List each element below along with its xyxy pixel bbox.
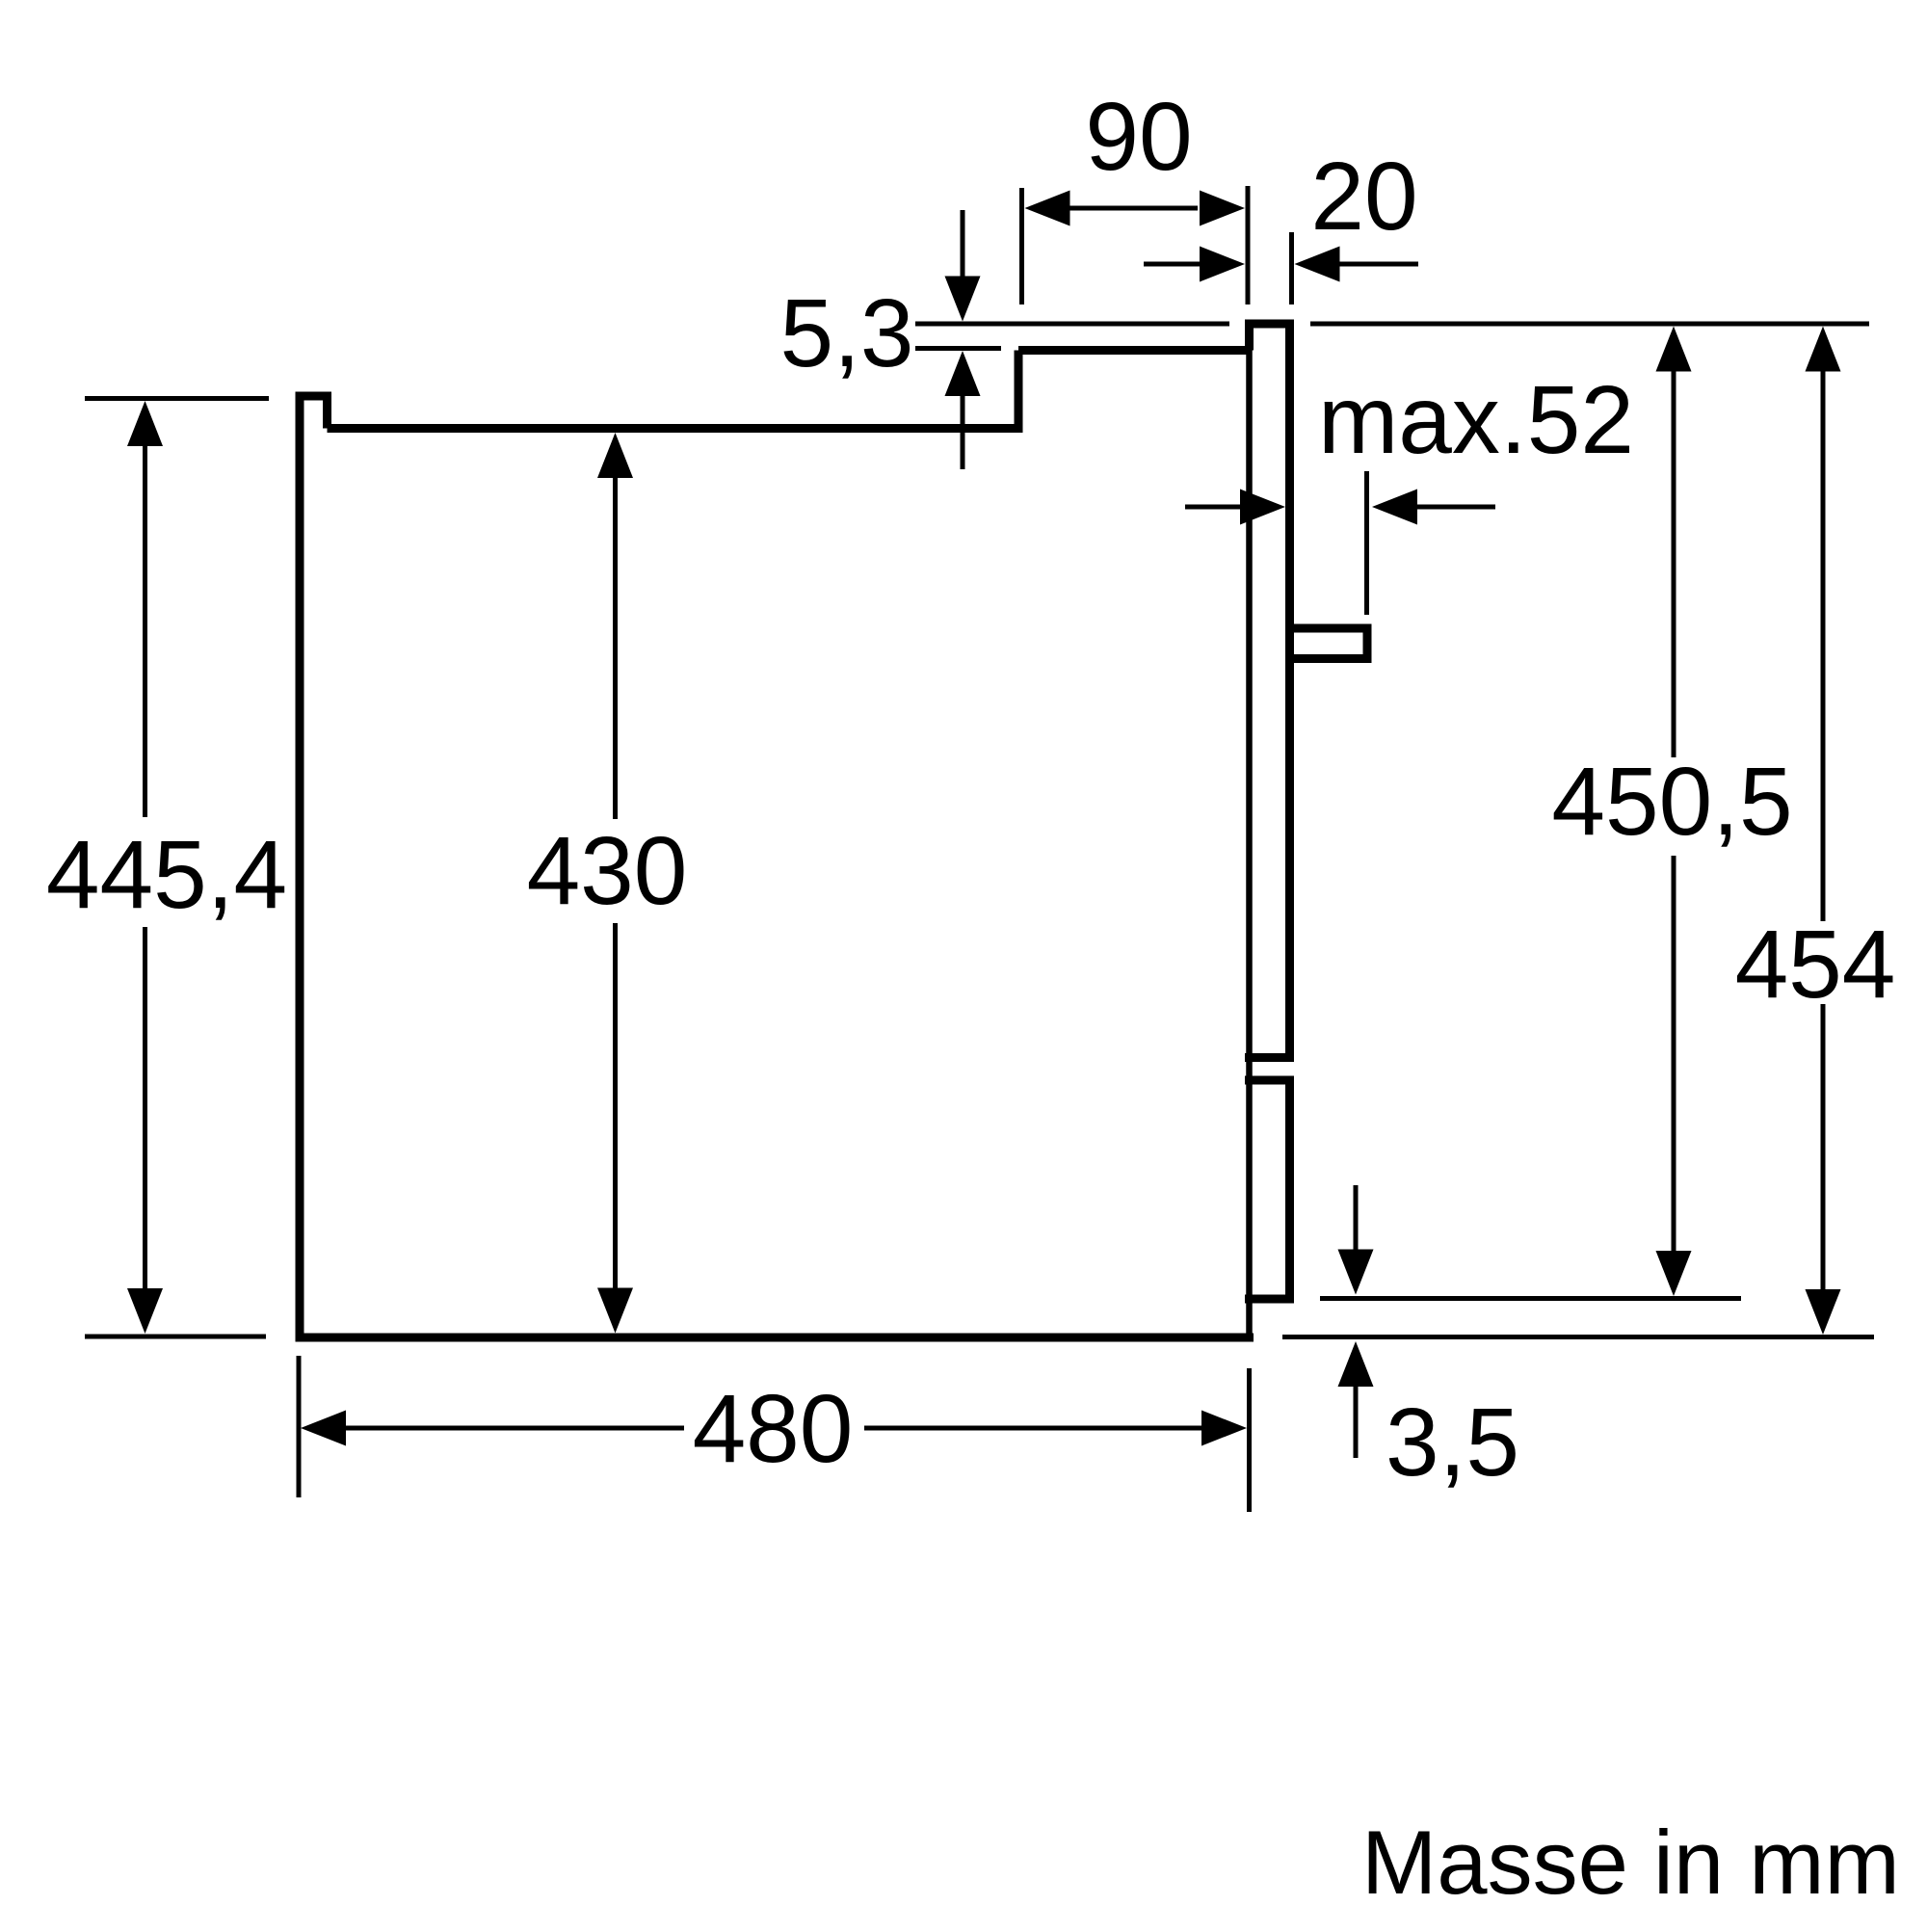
mounting bracket [1285,628,1367,659]
dimension 3,5 arrow down head [1338,1250,1374,1295]
dimension 454 arrow down [1806,1289,1841,1335]
svg-text:445,4: 445,4 [46,821,287,929]
extension line 20 right [1289,232,1294,304]
extension line max.52 [1364,471,1369,615]
front panel left wall upper [1245,320,1254,351]
dimension 430 line upper [613,476,618,819]
dimension 5,3 arrow up head [945,351,981,396]
dimension 480 line left [345,1426,684,1431]
cabinet top step riser [1015,351,1023,434]
dimension 5,3 arrow down tail [961,210,965,278]
dimension 480 arrow right [1201,1411,1247,1446]
svg-text:Masse in mm: Masse in mm [1361,1812,1900,1913]
svg-text:5,3: 5,3 [779,279,913,387]
dimension 20 arrow right-pointing head [1200,247,1245,282]
reference line cabinet bottom right [1282,1335,1874,1339]
dimension 480 arrow left [301,1411,346,1446]
dimension 5,3 arrow up tail [961,394,965,469]
dimension 20 arrow left-pointing head [1295,247,1340,282]
front panel upper bottom cap [1245,1053,1294,1062]
extension line top left [85,396,269,401]
dimension 20 arrow right-pointing tail [1144,262,1201,267]
dimension 445,4 line upper [143,443,147,817]
dimension 480 line right [864,1426,1203,1431]
dimension 445,4 arrow up [127,401,163,446]
dimension 445,4 line lower [143,927,147,1291]
reference line 5,3 lower [915,346,1001,351]
dimension 430 arrow down [597,1288,633,1334]
extension line 90 right [1246,186,1251,304]
reference line 5,3 upper [915,322,1229,327]
svg-text:450,5: 450,5 [1551,748,1792,856]
front panel upper right wall [1285,320,1294,1063]
svg-text:20: 20 [1310,143,1417,251]
front panel lower top cap [1245,1076,1294,1085]
dimension 450,5 line lower [1672,856,1676,1253]
extension line bottom left [85,1335,266,1339]
front panel left wall [1246,351,1253,1342]
cabinet bottom edge [296,1334,1254,1342]
extension line 480 left [297,1356,302,1497]
extension line 90 left [1019,188,1024,304]
reference line panel bottom right [1320,1296,1741,1301]
svg-text:90: 90 [1085,83,1192,191]
dimension 454 line lower [1821,1004,1826,1291]
dimension 454 arrow up [1806,327,1841,372]
svg-text:480: 480 [693,1375,854,1483]
dimension 450,5 line upper [1672,369,1676,757]
dimension 3,5 arrow up head [1338,1341,1374,1387]
dimension max.52 arrow left-pointing tail [1415,505,1495,510]
dimension max.52 arrow right-pointing head [1240,490,1285,525]
svg-text:430: 430 [527,817,688,925]
front panel bottom cap [1245,1295,1294,1304]
dimension 450,5 arrow down [1656,1251,1692,1296]
dimension 20 arrow left-pointing tail [1337,262,1418,267]
dimension 90 arrow left [1025,191,1070,226]
cabinet step upper edge [1018,346,1250,355]
dimension max.52 arrow left-pointing head [1372,490,1417,525]
dimension 430 arrow up [597,433,633,478]
dimension 90 arrow right [1200,191,1245,226]
dimension max.52 arrow right-pointing tail [1185,505,1242,510]
svg-text:max.52: max.52 [1318,366,1634,474]
dimension 90 line [1068,206,1198,211]
reference line top right [1310,322,1869,327]
dimension 430 line lower [613,923,618,1289]
dimension 3,5 arrow up tail [1354,1385,1359,1458]
dimension 445,4 arrow down [127,1288,163,1334]
dimension 5,3 arrow down head [945,277,981,322]
dimension 454 line upper [1821,369,1826,921]
front panel lower right wall [1285,1076,1294,1304]
cabinet top-left tab [296,396,328,429]
front panel top cap [1245,320,1294,329]
svg-text:3,5: 3,5 [1386,1389,1519,1496]
dimension 450,5 arrow up [1656,327,1692,372]
cabinet top edge [328,424,1019,433]
extension line 480 right [1247,1368,1252,1512]
dimension 3,5 arrow down tail [1354,1185,1359,1251]
svg-text:454: 454 [1735,911,1896,1019]
cabinet left wall [296,392,304,1342]
